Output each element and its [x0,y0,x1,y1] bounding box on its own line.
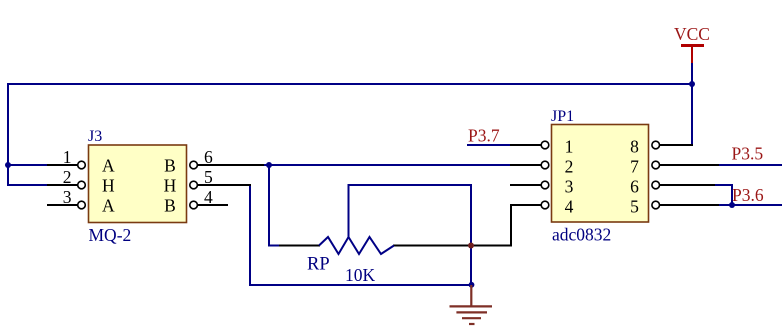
svg-text:1: 1 [565,137,574,157]
svg-text:VCC: VCC [674,24,710,44]
svg-text:B: B [164,156,176,176]
svg-text:8: 8 [630,137,639,157]
svg-text:4: 4 [565,197,574,217]
svg-text:1: 1 [63,147,72,167]
svg-text:3: 3 [565,177,574,197]
svg-text:P3.6: P3.6 [732,185,764,205]
svg-text:H: H [102,176,115,196]
svg-text:7: 7 [630,157,639,177]
svg-text:JP1: JP1 [551,108,574,125]
svg-text:5: 5 [630,197,639,217]
svg-text:A: A [102,156,115,176]
svg-text:2: 2 [565,157,574,177]
svg-text:H: H [164,176,177,196]
svg-text:P3.5: P3.5 [732,144,764,164]
svg-text:A: A [102,196,115,216]
svg-text:2: 2 [63,167,72,187]
svg-text:6: 6 [204,147,213,167]
svg-text:4: 4 [204,187,213,207]
svg-text:P3.7: P3.7 [468,126,500,146]
svg-text:RP: RP [307,255,330,275]
svg-text:6: 6 [630,177,639,197]
svg-text:MQ-2: MQ-2 [89,225,132,245]
svg-text:B: B [164,196,176,216]
svg-text:adc0832: adc0832 [552,225,611,245]
svg-text:10K: 10K [345,265,376,285]
svg-text:J3: J3 [88,128,102,145]
svg-text:3: 3 [63,187,72,207]
svg-text:5: 5 [204,167,213,187]
